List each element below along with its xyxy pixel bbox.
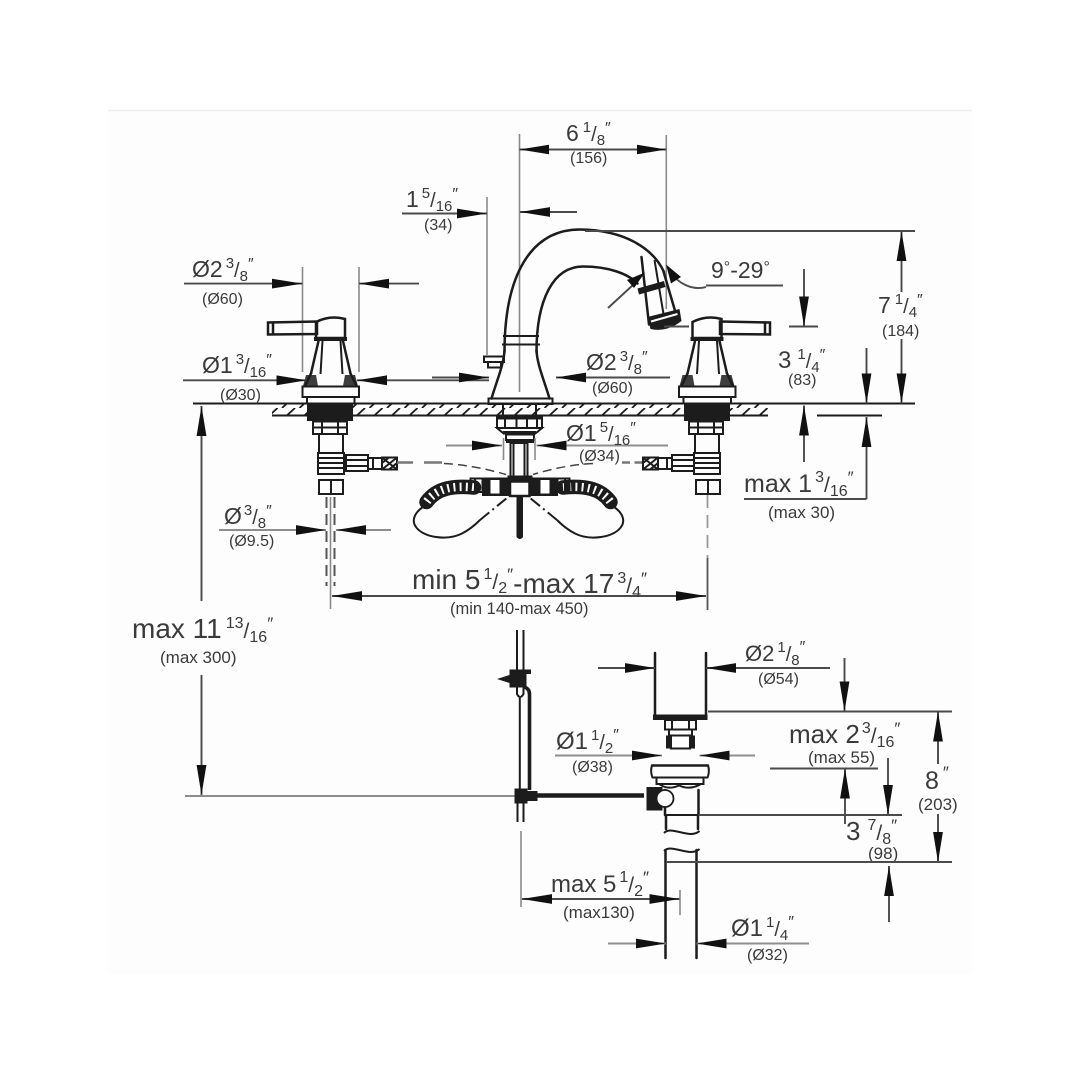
spout side outlet	[484, 357, 504, 368]
drain body with ball joint	[647, 787, 699, 815]
right braided hose	[563, 487, 611, 502]
left handle extension line B	[358, 267, 360, 372]
spout extension line left (x487)	[486, 197, 488, 355]
right valve below counter	[643, 405, 730, 495]
dim max 1 3/16 (max 30)	[744, 348, 871, 522]
svg-text:(Ø9.5): (Ø9.5)	[229, 533, 274, 550]
counter bottom segment right	[817, 415, 882, 417]
nozzle tip reference line y326.5	[664, 326, 689, 328]
dim center O2 3/8 (O60)	[432, 348, 670, 397]
svg-text:(Ø54): (Ø54)	[758, 671, 799, 688]
counter top line	[193, 403, 915, 405]
reference line y815	[699, 814, 903, 816]
svg-text:(203): (203)	[918, 795, 958, 814]
dim O2 1/8 (O54)	[598, 639, 830, 688]
right loop diagonal	[530, 498, 558, 521]
svg-text:(Ø34): (Ø34)	[579, 448, 620, 465]
left valve pull-rod dashed	[327, 497, 335, 586]
svg-text:(83): (83)	[788, 372, 816, 389]
svg-text:9°-29°: 9°-29°	[711, 257, 770, 283]
right valve centerline dashed	[707, 495, 709, 558]
drain flange	[651, 766, 709, 788]
dim 3 7/8 (98)	[846, 758, 898, 922]
svg-text:(min 140-max 450): (min 140-max 450)	[450, 600, 588, 618]
spout nozzle	[638, 257, 682, 330]
dim O3/8 (O9.5)	[219, 502, 391, 550]
dim 8" (203)	[914, 712, 964, 863]
dim max 5 1/2 (max130)	[521, 831, 680, 922]
bottom reference line y862	[666, 861, 952, 863]
tee fitting	[471, 476, 570, 497]
svg-text:(max 55): (max 55)	[808, 748, 875, 767]
horizontal linkage rod	[536, 793, 644, 798]
hose swing arc right	[533, 464, 593, 475]
dim left O1 3/16 (O30)	[183, 351, 489, 404]
dim 6 1/8 (156)	[520, 119, 667, 167]
center shank below counter	[496, 404, 543, 478]
svg-text:(Ø60): (Ø60)	[592, 380, 633, 397]
left loop diagonal	[480, 498, 508, 521]
spout extension line right (x666)	[665, 135, 667, 309]
dim 3 1/4 (83)	[778, 269, 826, 462]
dim min-max spread	[332, 564, 706, 618]
hose swing arc left	[444, 464, 506, 475]
left handle extension line A	[302, 267, 304, 372]
dim O1 1/2 (O38)	[555, 727, 755, 776]
tee pull rod	[517, 497, 524, 540]
drawing sheet area	[108, 110, 972, 974]
svg-text:(max 300): (max 300)	[160, 648, 237, 667]
left valve below counter	[307, 405, 397, 495]
dim max 11 13/16 (max 300)	[132, 406, 273, 795]
svg-text:(156): (156)	[570, 150, 607, 167]
counter hatch strip	[272, 404, 768, 416]
reference line y711.5	[708, 711, 952, 713]
left handle	[268, 318, 359, 404]
left hose loop	[414, 507, 480, 538]
dim O1 1/4 (O32)	[608, 914, 809, 964]
svg-text:(max 30): (max 30)	[768, 503, 835, 522]
dim 1 5/16 (34)	[402, 185, 577, 234]
svg-text:(Ø30): (Ø30)	[220, 387, 261, 404]
drain tube with break	[664, 815, 700, 958]
spout body	[484, 230, 664, 405]
svg-text:(max130): (max130)	[563, 903, 635, 922]
dim max 2 3/16 (max 55)	[770, 658, 900, 824]
centerline dashes right	[622, 461, 642, 463]
dim left O2 3/8 (O60)	[184, 255, 419, 308]
lift rod	[497, 630, 538, 822]
right handle	[679, 318, 770, 404]
drain top tube	[653, 653, 708, 749]
svg-text:(98): (98)	[868, 844, 898, 863]
svg-text:(34): (34)	[424, 217, 452, 234]
dim O1 5/16 (O34)	[446, 419, 668, 465]
right hose loop	[557, 507, 623, 538]
bottom reference line y796	[185, 795, 518, 797]
top reference line y231	[585, 230, 915, 232]
svg-text:(Ø60): (Ø60)	[202, 291, 243, 308]
dim angle 9-29	[608, 257, 783, 308]
spout extension line center (x519.5)	[519, 134, 521, 392]
left braided hose	[427, 487, 475, 502]
dim 7 1/4 (184)	[874, 231, 934, 404]
svg-text:(184): (184)	[882, 323, 919, 340]
centerline dashes left	[397, 461, 442, 463]
svg-text:(Ø38): (Ø38)	[572, 759, 613, 776]
svg-text:(Ø32): (Ø32)	[747, 947, 788, 964]
